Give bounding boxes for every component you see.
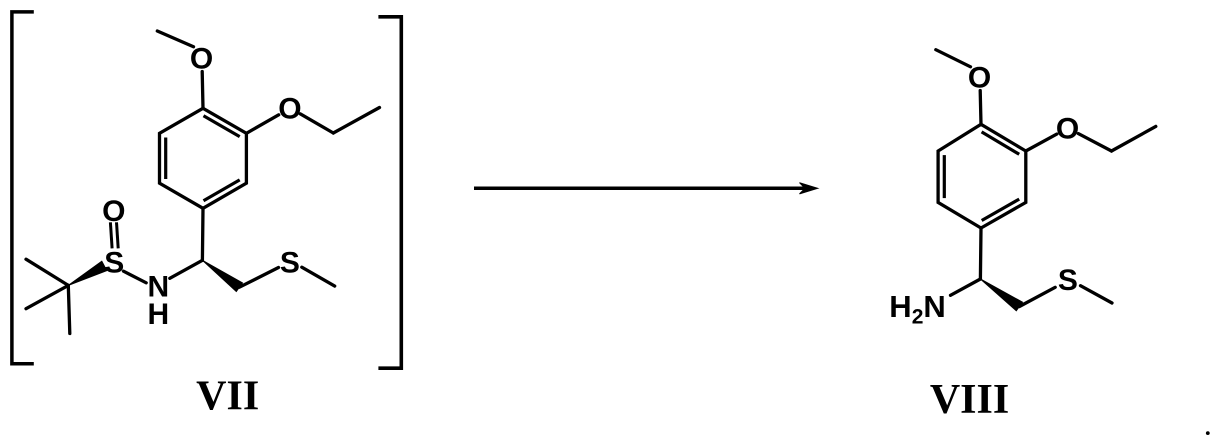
svg-text:H: H bbox=[147, 298, 169, 331]
bond ring to methoxy O bbox=[201, 72, 205, 109]
bond ring to ethoxy O bbox=[246, 115, 278, 134]
svg-text:VIII: VIII bbox=[930, 377, 1009, 423]
ring double bond C3=C4 bbox=[204, 180, 240, 201]
svg-text:S: S bbox=[280, 246, 300, 279]
bond ring to methoxy O (VIII) bbox=[979, 91, 983, 125]
svg-text:H2N: H2N bbox=[889, 289, 945, 329]
benzene ring of VII bbox=[160, 108, 247, 208]
bond tBu methyl down bbox=[68, 285, 70, 333]
left bracket bbox=[12, 12, 34, 364]
wedge bond chiral CH to CH2S (VIII) bbox=[980, 279, 1022, 311]
svg-text:O: O bbox=[1056, 112, 1079, 145]
bond tBu methyl down-left bbox=[26, 285, 68, 308]
bond thioether S to CH3 bbox=[302, 267, 335, 286]
right bracket bbox=[378, 17, 401, 368]
trailing period bbox=[1206, 431, 1210, 435]
svg-text:O: O bbox=[102, 195, 125, 228]
ring double bond C3=C4 (VIII) bbox=[982, 199, 1020, 220]
bond CH2 to thioether S bbox=[239, 268, 278, 288]
bond CH2 to thioether S (VIII) bbox=[1019, 287, 1055, 306]
svg-text:S: S bbox=[1058, 264, 1078, 297]
svg-text:VII: VII bbox=[196, 373, 259, 419]
wedge bond tBu C to S bbox=[68, 261, 107, 285]
reaction arrow bbox=[474, 187, 813, 191]
bond ring to chiral CH (VIII) bbox=[979, 228, 983, 279]
bond ethoxy O to CH2 bbox=[300, 114, 333, 133]
svg-text:O: O bbox=[278, 93, 301, 126]
bond ring to chiral CH bbox=[201, 208, 205, 260]
bond methoxy O to CH3 (VIII) bbox=[936, 50, 971, 67]
ring double bond C5=C6 (VIII) bbox=[943, 155, 946, 198]
ring double bond C1=C2 (VIII) bbox=[982, 132, 1020, 154]
benzene ring of VIII bbox=[938, 124, 1026, 228]
bond ethoxy CH2 to CH3 (VIII) bbox=[1112, 126, 1156, 151]
bond methoxy O to CH3 bbox=[157, 31, 193, 47]
bond ring to ethoxy O (VIII) bbox=[1026, 134, 1057, 151]
bond chiral CH to NH2 bbox=[951, 279, 981, 295]
wedge bond chiral CH to CH2S bbox=[202, 260, 242, 291]
bond ethoxy CH2 to CH3 bbox=[333, 108, 379, 134]
bond tBu methyl up-left bbox=[26, 259, 68, 285]
bond chiral CH to N bbox=[170, 260, 203, 278]
svg-text:S: S bbox=[104, 246, 124, 279]
bond thioether S to CH3 (VIII) bbox=[1081, 286, 1113, 303]
S=O double bond bbox=[110, 222, 112, 248]
ring double bond C1=C2 bbox=[204, 116, 240, 137]
ring double bond C5=C6 bbox=[164, 138, 167, 180]
bond S to N bbox=[124, 271, 147, 283]
bond ethoxy O to CH2 (VIII) bbox=[1078, 134, 1111, 151]
